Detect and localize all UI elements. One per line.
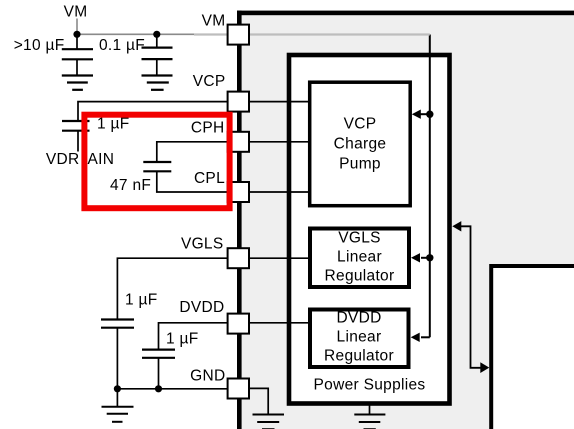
wire VGLS net	[117, 258, 310, 319]
arrow into VCP charge pump	[412, 110, 421, 119]
svg-text:GND: GND	[190, 368, 225, 385]
svg-text:1 µF: 1 µF	[125, 292, 158, 309]
pin VGLS	[228, 248, 249, 268]
pin CPL	[228, 182, 249, 202]
svg-text:Pump: Pump	[339, 156, 381, 173]
svg-text:Regulator: Regulator	[324, 348, 394, 365]
svg-text:VGLS: VGLS	[338, 230, 381, 247]
red highlight box	[84, 115, 229, 209]
svg-text:1 µF: 1 µF	[97, 116, 130, 133]
device top edge	[237, 11, 574, 16]
pin VM	[228, 25, 249, 45]
svg-text:Regulator: Regulator	[325, 268, 395, 285]
VCP charge pump box U1	[310, 82, 411, 206]
ground below power supplies box	[354, 404, 385, 429]
svg-text:1 µF: 1 µF	[166, 331, 199, 348]
svg-text:0.1 µF: 0.1 µF	[99, 37, 145, 54]
pin GND	[228, 379, 249, 399]
wire CPL net	[157, 171, 310, 192]
svg-text:CPL: CPL	[194, 170, 225, 187]
svg-text:VCP: VCP	[344, 116, 377, 133]
svg-text:VDR: VDR	[46, 151, 80, 168]
arrow at power supplies right edge	[452, 221, 461, 231]
svg-text:DVDD: DVDD	[179, 299, 224, 316]
svg-text:>10 µF: >10 µF	[14, 37, 65, 54]
wire CPH net	[157, 142, 310, 162]
wire GND pin to internal ground	[249, 388, 268, 414]
pin DVDD	[228, 314, 249, 334]
capacitor C2 0.1uF	[142, 34, 173, 75]
VGLS linear regulator box U2	[310, 229, 409, 288]
pin CPH	[228, 132, 249, 152]
arrow into gate driver block	[480, 362, 489, 373]
DVDD linear regulator box U3	[310, 310, 409, 368]
svg-text:AIN: AIN	[88, 151, 115, 168]
ground symbol left rail	[102, 389, 134, 422]
arrow into DVDD regulator	[411, 333, 420, 342]
capacitor C6 1uF (DVDD)	[142, 350, 175, 389]
capacitor C4 47nF (flying cap)	[143, 162, 171, 171]
svg-text:VM: VM	[64, 4, 88, 21]
wire: power supplies output to gate driver	[461, 226, 481, 367]
svg-text:VM: VM	[202, 13, 226, 30]
junction dot C5/rail	[114, 385, 121, 392]
capacitor C1 >10uF	[62, 34, 93, 75]
wire: VM to VGLS regulator	[421, 257, 430, 259]
svg-text:Charge: Charge	[334, 136, 387, 153]
wire: VM to VCP charge pump	[420, 113, 430, 115]
wire: VM to DVDD regulator	[421, 336, 430, 338]
wire VCP net	[78, 102, 310, 121]
VM net wire (gray)	[76, 19, 430, 35]
capacitor C5 1uF (VGLS)	[101, 320, 134, 389]
svg-text:CPH: CPH	[191, 120, 225, 137]
svg-text:Linear: Linear	[337, 329, 382, 346]
ground symbol at GND pin	[253, 415, 285, 429]
svg-text:VGLS: VGLS	[181, 236, 224, 253]
junction dot node VM / C2	[153, 31, 160, 38]
ground rail wire	[117, 388, 227, 390]
arrow into VGLS regulator	[411, 253, 420, 262]
device left edge	[237, 11, 242, 429]
internal VM net vertical wire	[429, 35, 431, 338]
pin VCP	[228, 92, 249, 112]
device body (gray fill)	[237, 11, 574, 429]
svg-text:Power Supplies: Power Supplies	[314, 377, 426, 394]
svg-text:VCP: VCP	[193, 73, 226, 90]
junction dot node VM / C1	[73, 31, 80, 38]
junction dot on VM net at VCP arrow	[426, 111, 433, 118]
capacitor C3 1uF (VCP-VDRAIN)	[62, 121, 90, 152]
svg-text:DVDD: DVDD	[336, 310, 381, 327]
svg-text:47 nF: 47 nF	[110, 177, 151, 194]
ground for C1	[62, 76, 93, 90]
junction dot C6/rail	[155, 385, 162, 392]
wire DVDD net	[159, 323, 311, 350]
power supplies box	[289, 55, 450, 404]
ground for C2	[142, 76, 173, 90]
gate driver block (bottom right)	[492, 266, 574, 429]
svg-text:Linear: Linear	[337, 249, 382, 266]
junction dot on VM net at VGLS arrow	[426, 254, 433, 261]
